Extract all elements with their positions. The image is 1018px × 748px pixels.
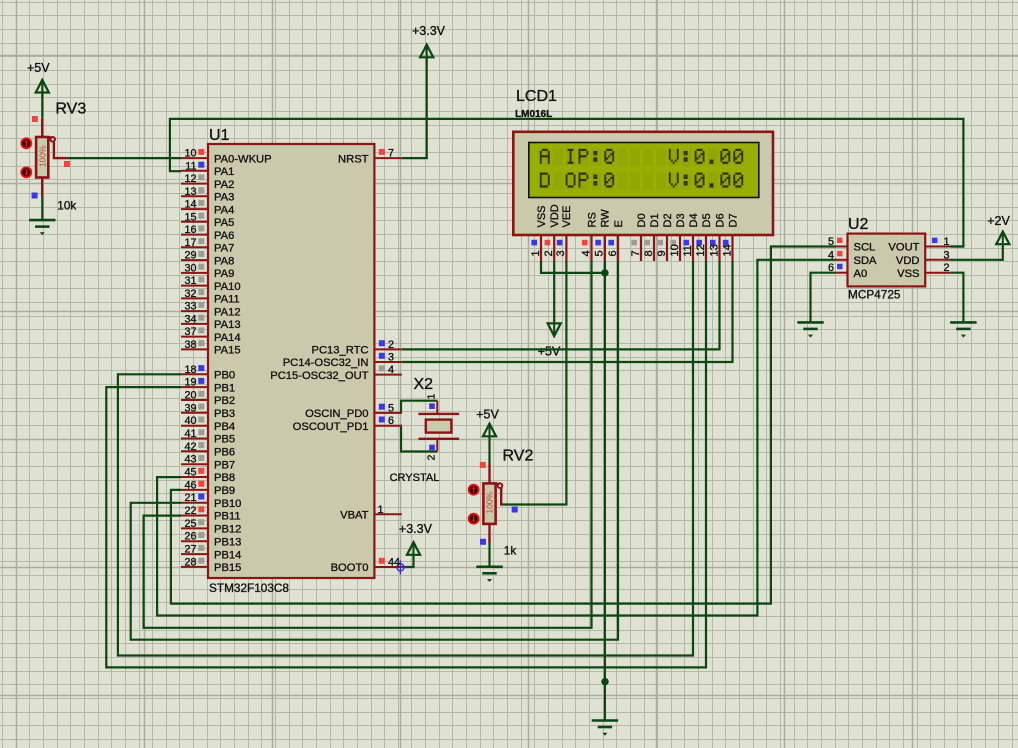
svg-text:27: 27: [184, 544, 196, 556]
svg-text:5: 5: [594, 250, 606, 256]
svg-text:BOOT0: BOOT0: [331, 562, 369, 574]
svg-text:LCD1: LCD1: [516, 88, 557, 105]
svg-text:+3.3V: +3.3V: [412, 24, 446, 38]
svg-text:PA10: PA10: [214, 281, 241, 293]
svg-text:PB2: PB2: [214, 395, 235, 407]
svg-text:+2V: +2V: [987, 214, 1010, 228]
svg-text:PB6: PB6: [214, 447, 235, 459]
svg-text:10: 10: [669, 244, 681, 256]
svg-text:38: 38: [184, 339, 196, 351]
svg-text:45: 45: [184, 467, 196, 479]
svg-text:14: 14: [184, 199, 196, 211]
svg-text:12: 12: [695, 244, 707, 256]
svg-text:A0: A0: [854, 268, 868, 280]
svg-text:11: 11: [185, 160, 196, 172]
svg-text:VSS: VSS: [897, 268, 919, 280]
svg-text:12: 12: [184, 173, 196, 185]
svg-text:+5V: +5V: [27, 61, 50, 75]
svg-text:D6: D6: [714, 213, 726, 227]
svg-text:13: 13: [184, 186, 196, 198]
svg-text:VBAT: VBAT: [340, 510, 369, 522]
svg-text:1: 1: [378, 504, 384, 516]
svg-text:PA5: PA5: [214, 217, 234, 229]
svg-text:VDD: VDD: [896, 255, 920, 267]
svg-text:RW: RW: [600, 209, 612, 228]
svg-text:4: 4: [828, 249, 834, 261]
svg-text:D7: D7: [727, 213, 739, 227]
svg-text:D1: D1: [649, 213, 661, 227]
svg-text:PC14-OSC32_IN: PC14-OSC32_IN: [283, 357, 369, 369]
svg-text:1: 1: [944, 236, 950, 248]
svg-text:16: 16: [184, 224, 196, 236]
svg-text:22: 22: [184, 505, 196, 517]
svg-text:VEE: VEE: [561, 205, 573, 227]
svg-text:100%: 100%: [485, 491, 495, 513]
svg-text:PA3: PA3: [214, 192, 234, 204]
svg-text:30: 30: [184, 262, 196, 274]
svg-text:1: 1: [426, 394, 438, 400]
svg-text:D5: D5: [701, 213, 713, 227]
svg-text:3: 3: [388, 352, 394, 364]
svg-text:OSCIN_PD0: OSCIN_PD0: [305, 408, 368, 420]
svg-text:PB14: PB14: [214, 549, 241, 561]
svg-text:PC15-OSC32_OUT: PC15-OSC32_OUT: [270, 370, 368, 382]
svg-text:SCL: SCL: [854, 242, 876, 254]
svg-text:5: 5: [388, 402, 394, 414]
svg-text:2: 2: [426, 455, 438, 461]
svg-text:4: 4: [388, 364, 394, 376]
svg-text:28: 28: [184, 556, 196, 568]
svg-text:3: 3: [555, 250, 567, 256]
svg-text:18: 18: [184, 364, 196, 376]
svg-text:STM32F103C8: STM32F103C8: [209, 581, 289, 595]
svg-text:6: 6: [607, 250, 619, 256]
svg-text:41: 41: [184, 428, 196, 440]
svg-text:PA13: PA13: [214, 319, 241, 331]
svg-text:PA4: PA4: [214, 204, 234, 216]
svg-text:2: 2: [388, 339, 394, 351]
svg-text:14: 14: [721, 244, 733, 256]
svg-text:X2: X2: [414, 376, 434, 393]
svg-text:PA12: PA12: [214, 306, 241, 318]
svg-text:2: 2: [543, 250, 555, 256]
svg-text:VOUT: VOUT: [888, 242, 919, 254]
svg-text:8: 8: [643, 250, 655, 256]
svg-text:PB10: PB10: [214, 498, 241, 510]
svg-text:PA0-WKUP: PA0-WKUP: [214, 153, 272, 165]
svg-text:100%: 100%: [37, 145, 47, 167]
svg-text:D4: D4: [688, 213, 700, 227]
svg-text:D0: D0: [636, 213, 648, 227]
svg-text:32: 32: [184, 288, 196, 300]
svg-text:PB4: PB4: [214, 421, 235, 433]
svg-text:NRST: NRST: [338, 153, 369, 165]
svg-text:PB1: PB1: [214, 382, 235, 394]
svg-text:1: 1: [530, 250, 542, 256]
svg-text:PB8: PB8: [214, 472, 235, 484]
svg-text:40: 40: [184, 415, 196, 427]
svg-text:31: 31: [184, 275, 196, 287]
svg-text:PB5: PB5: [214, 434, 235, 446]
svg-text:19: 19: [184, 377, 196, 389]
svg-text:39: 39: [184, 402, 196, 414]
svg-text:17: 17: [184, 237, 196, 249]
svg-text:PA7: PA7: [214, 243, 234, 255]
svg-text:PA1: PA1: [214, 166, 234, 178]
svg-text:SDA: SDA: [854, 255, 878, 267]
svg-text:10k: 10k: [57, 199, 76, 213]
svg-text:21: 21: [184, 492, 196, 504]
svg-text:RV2: RV2: [503, 448, 534, 465]
svg-text:+3.3V: +3.3V: [399, 522, 433, 536]
svg-text:20: 20: [184, 390, 196, 402]
svg-text:OSCOUT_PD1: OSCOUT_PD1: [293, 421, 369, 433]
svg-text:33: 33: [184, 301, 196, 313]
svg-text:CRYSTAL: CRYSTAL: [390, 472, 440, 484]
svg-text:U1: U1: [209, 127, 230, 144]
svg-text:25: 25: [184, 518, 196, 530]
svg-text:PB12: PB12: [214, 524, 241, 536]
svg-text:29: 29: [184, 250, 196, 262]
svg-text:1k: 1k: [504, 544, 517, 558]
svg-text:RS: RS: [586, 212, 598, 227]
svg-text:10: 10: [184, 148, 196, 160]
svg-text:+5V: +5V: [538, 345, 561, 359]
svg-text:PA11: PA11: [214, 294, 240, 306]
svg-text:E: E: [613, 220, 625, 227]
svg-text:43: 43: [184, 454, 196, 466]
svg-text:MCP4725: MCP4725: [848, 288, 901, 302]
svg-text:6: 6: [388, 415, 394, 427]
svg-text:34: 34: [184, 313, 196, 325]
svg-text:37: 37: [184, 326, 196, 338]
svg-text:7: 7: [388, 148, 394, 160]
svg-text:PA6: PA6: [214, 230, 234, 242]
svg-text:6: 6: [828, 262, 834, 274]
svg-text:PB9: PB9: [214, 485, 235, 497]
svg-text:RV3: RV3: [55, 101, 86, 118]
svg-text:PA15: PA15: [214, 345, 241, 357]
svg-text:9: 9: [656, 250, 668, 256]
svg-text:42: 42: [184, 441, 196, 453]
svg-text:PB11: PB11: [214, 511, 241, 523]
svg-text:PB7: PB7: [214, 459, 235, 471]
svg-text:4: 4: [580, 250, 592, 256]
svg-text:LM016L: LM016L: [515, 109, 552, 120]
svg-text:44: 44: [388, 557, 400, 569]
svg-text:13: 13: [708, 244, 720, 256]
svg-text:46: 46: [184, 479, 196, 491]
svg-text:7: 7: [630, 250, 642, 256]
svg-text:VDD: VDD: [549, 204, 561, 227]
svg-text:26: 26: [184, 531, 196, 543]
svg-text:PC13_RTC: PC13_RTC: [312, 345, 369, 357]
svg-text:PA14: PA14: [214, 332, 241, 344]
svg-text:PB13: PB13: [214, 536, 241, 548]
svg-text:+5V: +5V: [476, 407, 499, 421]
svg-text:PA2: PA2: [214, 179, 234, 191]
svg-text:VSS: VSS: [536, 205, 548, 227]
svg-text:PB3: PB3: [214, 408, 235, 420]
svg-text:D2: D2: [662, 213, 674, 227]
svg-text:U2: U2: [848, 216, 869, 233]
svg-text:PB15: PB15: [214, 562, 241, 574]
svg-text:PB0: PB0: [214, 370, 235, 382]
svg-text:3: 3: [944, 249, 950, 261]
svg-text:2: 2: [944, 262, 950, 274]
svg-text:15: 15: [184, 211, 196, 223]
svg-text:PA9: PA9: [214, 268, 234, 280]
svg-text:PA8: PA8: [214, 255, 234, 267]
svg-text:11: 11: [682, 245, 694, 256]
svg-text:D3: D3: [675, 213, 687, 227]
svg-text:5: 5: [828, 236, 834, 248]
